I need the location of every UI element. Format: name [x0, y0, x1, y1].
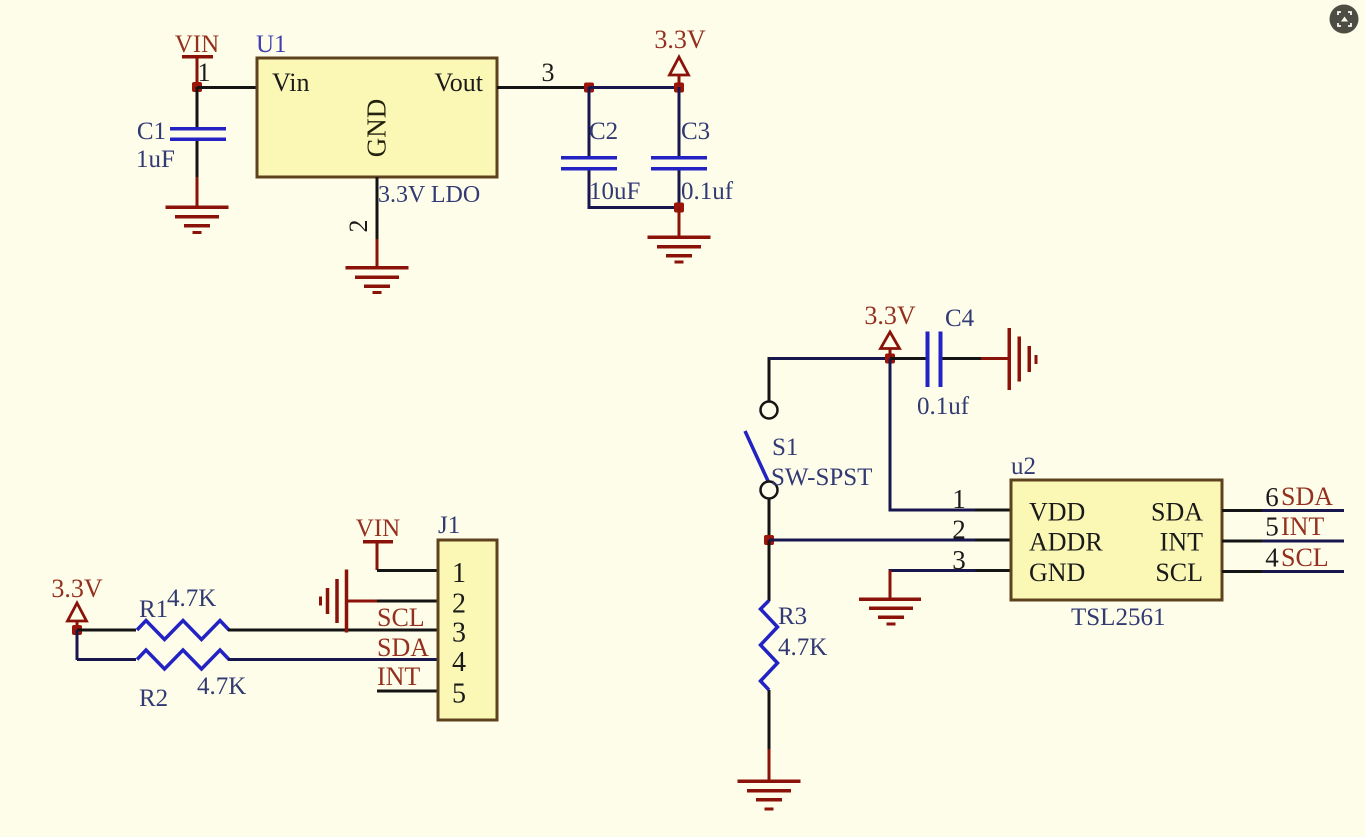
wire C2 node to C3 node [589, 86, 679, 89]
svg-text:SW-SPST: SW-SPST [771, 464, 872, 491]
ground (C1) [166, 206, 229, 235]
expand icon overlay [1330, 5, 1359, 34]
pin number 5 (u2 INT) [1265, 512, 1279, 542]
u2 SDA pin stub [1222, 509, 1262, 512]
ground stem (U1 pin 2) [376, 239, 379, 267]
wire SCL out [1262, 570, 1344, 573]
u2 VDD pin stub [975, 509, 1011, 512]
svg-text:3: 3 [542, 58, 555, 87]
svg-text:VDD: VDD [1029, 498, 1085, 527]
wire junction down to C1 [196, 87, 199, 127]
svg-text:3: 3 [452, 618, 466, 649]
svg-text:VIN: VIN [356, 515, 400, 542]
wire node down to R3 [768, 540, 771, 601]
svg-text:INT: INT [1160, 528, 1203, 557]
ground (U1 pin 2) [346, 266, 409, 294]
power port 3.3V (top) [654, 25, 706, 85]
wire VIN to J1 pin 1 [377, 569, 438, 572]
svg-text:4.7K: 4.7K [197, 673, 246, 700]
ground stem (R3) [768, 749, 771, 780]
capacitor C2 [561, 118, 640, 205]
wire C2 bottom [588, 171, 591, 210]
ground (C4, sideways) [1008, 328, 1038, 390]
svg-text:4.7K: 4.7K [778, 634, 827, 661]
svg-text:3.3V: 3.3V [654, 25, 706, 54]
designator u2 [1011, 453, 1036, 480]
pin number 3 (u2) [952, 545, 966, 575]
svg-text:SCL: SCL [1281, 543, 1329, 572]
ground stem (u2 GND) [889, 570, 892, 598]
svg-text:C2: C2 [589, 118, 618, 145]
svg-text:INT: INT [1281, 512, 1324, 541]
resistor R1 [137, 585, 229, 640]
svg-text:C1: C1 [137, 118, 166, 145]
node junction at output cap ground [674, 203, 684, 213]
wire 3.3V down to u2 VDD [889, 359, 976, 512]
pin number 2 (U1 pin 2, rotated) [344, 220, 373, 233]
wire SDA out [1262, 509, 1344, 512]
wire C2 node down [588, 87, 591, 156]
svg-text:C4: C4 [945, 305, 975, 332]
svg-text:1uF: 1uF [136, 146, 175, 173]
designator J1 [438, 512, 460, 539]
ground stem (C1) [196, 177, 199, 207]
pin number 4 (u2 SCL) [1265, 543, 1279, 573]
wire R1 to J1 pin 3 [228, 629, 438, 632]
connector J1 body [438, 540, 497, 720]
wire switch top corner [768, 357, 891, 402]
ground stem (output caps) [678, 208, 681, 237]
svg-text:3.3V LDO: 3.3V LDO [378, 182, 480, 208]
svg-text:R1: R1 [139, 596, 168, 623]
capacitor C3 [651, 118, 734, 205]
node junction at VIN input [192, 82, 202, 92]
wire C2 bottom to C3 bottom [589, 206, 679, 209]
svg-text:GND: GND [362, 99, 392, 158]
node junction at ADDR [764, 535, 774, 545]
svg-text:5: 5 [452, 679, 466, 710]
svg-text:4: 4 [452, 647, 466, 678]
svg-text:U1: U1 [256, 31, 287, 58]
svg-text:J1: J1 [438, 512, 460, 539]
svg-text:2: 2 [952, 515, 966, 545]
net label INT [377, 662, 420, 691]
svg-text:SCL: SCL [377, 603, 425, 632]
svg-text:0.1uf: 0.1uf [917, 393, 970, 420]
svg-text:3.3V: 3.3V [51, 574, 103, 603]
u2 GND pin stub and wire [889, 569, 1012, 572]
ground (output caps) [648, 236, 711, 264]
svg-text:2: 2 [452, 589, 466, 620]
svg-text:SDA: SDA [1281, 482, 1333, 511]
wire switch bottom down [768, 498, 771, 540]
net label SDA [377, 633, 429, 662]
pin number 1 (U1 pin 1) [198, 58, 211, 87]
net label SCL [377, 603, 425, 632]
wire C4 to ground [943, 357, 982, 360]
svg-text:10uF: 10uF [589, 178, 640, 205]
resistor R2 [137, 650, 246, 712]
pin number 6 (u2 SDA) [1265, 482, 1279, 512]
svg-text:4.7K: 4.7K [167, 585, 216, 612]
ground (J1 pin 2, sideways) [319, 570, 378, 633]
wire 3.3V node to C4 [890, 357, 927, 360]
node junction at C2 [584, 83, 594, 93]
svg-text:TSL2561: TSL2561 [1071, 604, 1165, 631]
wire INT out [1262, 540, 1344, 543]
u2 INT pin stub [1222, 540, 1262, 543]
U1 pin 3 stub [497, 86, 589, 89]
svg-text:1: 1 [952, 484, 966, 514]
sensor u2 body [1011, 480, 1222, 600]
ground stem (C4, sideways) [981, 357, 1008, 360]
power port VIN (top-left) [175, 31, 219, 84]
svg-text:VIN: VIN [175, 31, 219, 58]
pin number 1 (u2) [952, 484, 966, 514]
wire J1 pin 5 [377, 690, 438, 693]
svg-text:Vin: Vin [272, 68, 309, 97]
pin number 2 (u2) [952, 515, 966, 545]
regulator U1 body [257, 58, 497, 177]
svg-text:1: 1 [452, 558, 466, 589]
svg-text:GND: GND [1029, 558, 1085, 587]
U1 pin 2 wire [376, 177, 379, 239]
svg-text:SCL: SCL [1155, 558, 1203, 587]
value label 3.3V LDO [378, 182, 480, 208]
power port VIN (J1) [356, 515, 400, 570]
wire node to u2 ADDR [769, 539, 975, 542]
svg-text:ADDR: ADDR [1029, 528, 1103, 557]
svg-text:R2: R2 [139, 685, 168, 712]
node junction at C3 / 3.3V [674, 83, 684, 93]
svg-text:SDA: SDA [1151, 498, 1203, 527]
svg-text:5: 5 [1265, 512, 1279, 542]
svg-text:C3: C3 [681, 118, 710, 145]
capacitor C1 [136, 118, 226, 173]
power port 3.3V (sensor) [864, 301, 916, 356]
u2 ADDR pin stub [975, 539, 1011, 542]
wire C3 node down [678, 87, 681, 156]
u2 SCL pin stub [1222, 570, 1262, 573]
designator U1 [256, 31, 287, 58]
wire 3.3V to R1 [77, 629, 136, 632]
wire R2 to J1 pin 4 [228, 658, 438, 661]
svg-text:INT: INT [377, 662, 420, 691]
svg-text:u2: u2 [1011, 453, 1036, 480]
svg-text:3: 3 [952, 545, 966, 575]
svg-text:3.3V: 3.3V [864, 301, 916, 330]
wire to R2 [77, 658, 136, 661]
value label TSL2561 [1071, 604, 1165, 631]
power port 3.3V (pull-ups) [51, 574, 103, 626]
ground (u2 GND) [859, 598, 921, 626]
resistor R3 [761, 601, 828, 691]
net label SDA (u2) [1281, 482, 1333, 511]
ground (R3) [738, 780, 801, 811]
wire R3 to ground [768, 690, 771, 749]
node junction at 3.3V / C4 [885, 354, 895, 364]
svg-text:Vout: Vout [434, 68, 483, 97]
net label SCL (u2) [1281, 543, 1329, 572]
wire junction to U1 Vin [197, 86, 257, 89]
wire 3.3V down to R2 [76, 630, 79, 660]
svg-text:6: 6 [1265, 482, 1279, 512]
wire ground to J1 pin 2 [377, 600, 438, 603]
svg-text:R3: R3 [778, 603, 807, 630]
svg-text:4: 4 [1265, 543, 1279, 573]
svg-text:0.1uf: 0.1uf [681, 178, 734, 205]
capacitor C4 [917, 305, 975, 420]
svg-text:S1: S1 [772, 434, 798, 461]
wire C1 to ground [196, 141, 199, 177]
node junction at 3.3V pull-ups [72, 625, 82, 635]
pin number 3 (U1 pin 3) [542, 58, 555, 87]
wire C3 bottom [678, 171, 681, 210]
svg-text:2: 2 [344, 220, 373, 233]
svg-text:SDA: SDA [377, 633, 429, 662]
switch S1 [745, 402, 872, 499]
net label INT (u2) [1281, 512, 1324, 541]
